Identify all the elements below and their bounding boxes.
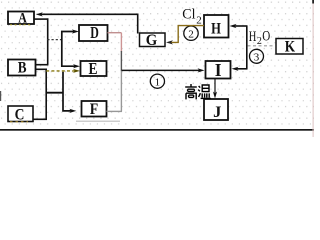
svg-text:G: G xyxy=(146,32,158,49)
box I xyxy=(206,60,231,80)
svg-text:O: O xyxy=(262,29,270,45)
right edge top mark xyxy=(312,0,314,4)
wire top line G to A with arrowhead into A xyxy=(36,12,138,33)
box D xyxy=(79,23,108,42)
svg-text:2: 2 xyxy=(196,14,202,26)
svg-text:Cl: Cl xyxy=(182,7,195,23)
right edge faint line xyxy=(313,0,314,137)
box A xyxy=(8,11,34,27)
label circled 3 xyxy=(250,49,264,63)
wire B upper stub xyxy=(36,64,49,66)
label H2O xyxy=(249,29,270,47)
wire A right stub xyxy=(35,18,49,20)
wire vertical V1 lower (B lower stub down to C stub) xyxy=(45,69,47,120)
svg-text:3: 3 xyxy=(254,51,260,63)
svg-text:K: K xyxy=(285,39,296,56)
box H xyxy=(204,15,229,38)
wire C stub xyxy=(33,118,47,120)
label circled 2 xyxy=(184,26,198,40)
arrow into I from V4 xyxy=(232,67,248,71)
svg-text:D: D xyxy=(90,23,99,42)
wire D right to V3 (pinkish gray) xyxy=(108,32,122,34)
wire vertical V1 upper (A stub down to B upper stub) xyxy=(47,18,49,64)
dashed olive arrow B to E xyxy=(46,69,80,73)
box B xyxy=(8,59,36,76)
svg-text:F: F xyxy=(90,101,99,118)
arrow I down to J xyxy=(213,79,217,99)
box C xyxy=(8,106,33,123)
wire V3 vertical lower (gray) xyxy=(120,70,122,111)
wire F right to V3 (gray) xyxy=(107,110,123,112)
svg-text:H: H xyxy=(211,21,221,38)
arrow 1 long line V3 to I xyxy=(121,68,204,72)
svg-text:1: 1 xyxy=(155,76,161,88)
svg-text:B: B xyxy=(18,59,27,76)
artifact yellow dashes under A xyxy=(10,24,30,26)
wire V3 vertical upper (pinkish) xyxy=(120,33,122,52)
wire solid connector V1 to V2 lower xyxy=(46,92,64,94)
dashed wire K to V4 xyxy=(248,45,276,47)
label gaowen char 2 wen xyxy=(198,85,211,98)
artifact yellow dashes under C xyxy=(10,121,28,123)
svg-text:C: C xyxy=(15,106,25,123)
svg-text:A: A xyxy=(18,11,27,27)
wire bracket V2 upper (D to E) with arrow into D xyxy=(62,29,80,68)
label Cl2 xyxy=(182,7,201,27)
svg-text:J: J xyxy=(213,104,221,121)
box E xyxy=(81,59,107,78)
svg-text:2: 2 xyxy=(188,28,194,40)
box G xyxy=(140,32,166,49)
svg-text:I: I xyxy=(215,60,222,80)
wire bracket V2 lower (to F) with arrow into F xyxy=(63,72,76,113)
label circled 1 xyxy=(150,74,164,88)
label gaowen (high temperature) char 1 gao xyxy=(185,84,197,99)
wire dashed connector V1 to V2 xyxy=(47,39,61,41)
svg-text:E: E xyxy=(89,59,98,78)
svg-text:2: 2 xyxy=(257,36,262,47)
wire V3 vertical middle (dark) xyxy=(120,51,122,71)
wire V4 vertical (right side) xyxy=(246,26,248,69)
bottom border line xyxy=(0,129,314,131)
left edge mark xyxy=(0,91,1,101)
olive wire H to G (Cl2 path) with arrow into G xyxy=(166,26,204,45)
arrow into H from V4 xyxy=(230,24,248,28)
gray ghost line under F xyxy=(76,120,120,122)
box J xyxy=(204,99,228,121)
wire B lower stub xyxy=(36,68,47,70)
svg-text:H: H xyxy=(249,29,257,45)
box K xyxy=(276,39,303,56)
box F xyxy=(82,101,107,118)
